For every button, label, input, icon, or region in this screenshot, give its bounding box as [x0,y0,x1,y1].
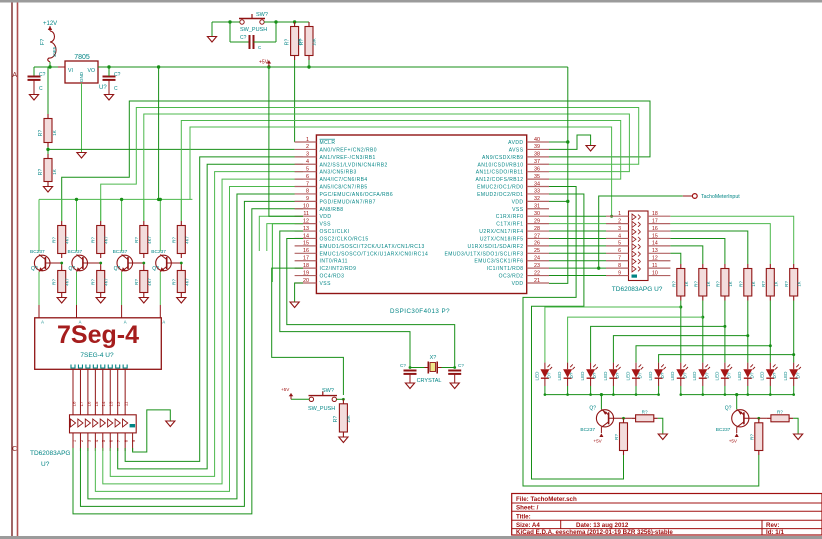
LED D12 [793,363,795,370]
svg-text:U1RX/SDI1/SDA/RF2: U1RX/SDI1/SDA/RF2 [468,244,524,250]
wire +5V to VDD pin11 [269,67,303,216]
svg-text:C?: C? [114,72,121,78]
svg-text:17: 17 [79,401,84,406]
svg-text:6: 6 [306,174,309,180]
wire SW1 node left down to cap [229,22,231,42]
wire bus AN11 long [144,114,630,221]
ground below R11 [139,298,148,304]
U5 pin 14 [295,237,317,239]
svg-text:LED: LED [557,371,562,381]
resistor R7 base upper [143,199,145,221]
svg-text:16: 16 [86,401,91,406]
svg-text:AN9/CSDX/RB9: AN9/CSDX/RB9 [482,155,524,161]
U5 pin 8 [295,193,317,195]
svg-text:TD62083APG: TD62083APG [30,450,70,457]
power flag +5V at Q6 [735,433,739,437]
svg-text:1K: 1K [684,281,689,286]
svg-text:PGC/EMUC/AN6/OCFA/RB6: PGC/EMUC/AN6/OCFA/RB6 [320,192,394,198]
svg-text:4K7: 4K7 [104,236,109,244]
svg-text:14: 14 [303,233,309,239]
svg-text:+5V: +5V [729,439,738,444]
wire MCU pin25 to U6 pin6 [549,252,606,254]
svg-text:SW?: SW? [256,12,268,18]
wire bus AN9 long [62,101,650,221]
wire base node Q5 [609,417,632,419]
svg-text:R?: R? [134,279,139,285]
U6 pin 8 [606,267,629,269]
ground for driver U4 [166,421,175,427]
svg-text:32: 32 [534,196,540,202]
svg-text:8: 8 [618,263,621,269]
wire MCU pin27 to U6 pin4 [549,237,606,239]
resistor R21 base drive [758,418,760,423]
svg-text:3: 3 [618,226,621,232]
svg-text:+5V: +5V [281,387,290,392]
svg-text:AN3/CN5/RB3: AN3/CN5/RB3 [320,170,357,176]
svg-text:+5V: +5V [593,439,602,444]
svg-text:30: 30 [534,211,540,217]
svg-text:4K7: 4K7 [65,236,70,244]
svg-text:Size: A4: Size: A4 [516,522,540,529]
U5 pin 18 [295,267,317,269]
U5 pin 20 [295,282,317,284]
svg-text:D?: D? [615,372,620,378]
wire LED D3 cathode [590,386,592,395]
U5 pin 31 [527,208,549,210]
svg-text:IC2/INT2/RD9: IC2/INT2/RD9 [320,266,357,272]
svg-text:R?: R? [749,434,754,440]
wire U6 pin16 to resistor [670,231,747,264]
resistor R4 to +5V rail [308,22,310,27]
svg-text:C: C [39,86,43,92]
resistor R20 base drive [623,418,625,423]
U5 pin 27 [527,237,549,239]
wire LED D5 cathode [635,386,637,395]
svg-text:4K7: 4K7 [147,278,152,286]
U5 pin 4 [295,163,317,165]
wire pin11 aux stub [259,216,303,251]
svg-text:3: 3 [306,152,309,158]
svg-text:VI: VI [68,68,73,74]
driver U4 bottom pin 9 [132,433,134,451]
svg-text:R?: R? [299,39,305,46]
svg-text:LED: LED [625,371,630,381]
svg-text:R?: R? [171,279,176,285]
svg-text:1K: 1K [52,169,57,175]
wire staircase segment 3 [724,301,726,363]
svg-text:4K7: 4K7 [104,278,109,286]
svg-text:AN11/CSDO/RB11: AN11/CSDO/RB11 [476,170,524,176]
transistor Q5 BC237 LED bank [600,393,603,396]
capacitor C2 [105,66,109,68]
LED D2 [567,363,569,370]
svg-text:1K: 1K [797,281,802,286]
svg-text:A: A [12,72,17,79]
U6 pin 13 [648,252,670,254]
svg-text:7SEG-4 U?: 7SEG-4 U? [80,352,114,359]
svg-text:EMUD2/OC2/RD1: EMUD2/OC2/RD1 [477,192,523,198]
svg-text:1K: 1K [728,281,733,286]
svg-text:D?: D? [772,372,777,378]
wire emitter Q2 to display [76,271,78,273]
svg-text:7: 7 [306,181,309,187]
7seg bottom pin 3 [86,365,90,369]
U6 pin 15 [648,237,670,239]
transistor Q6 BC237 LED bank [735,393,738,396]
wire to ground Q6 [793,418,798,433]
wire bus AN12 long [181,121,620,222]
wire segment net driver pin3 to MCU pin8 [88,194,303,499]
svg-text:AN0/VREF+/CN2/RB0: AN0/VREF+/CN2/RB0 [320,147,378,153]
svg-text:BC237: BC237 [580,427,595,433]
U6 pin 6 [606,252,629,254]
wire AVSS to ground [549,135,591,149]
svg-text:U2TX/CN18/RF5: U2TX/CN18/RF5 [480,236,524,242]
svg-text:13: 13 [652,248,658,254]
svg-text:Q?: Q? [725,406,732,412]
svg-text:9: 9 [306,196,309,202]
wire U6 pin17 to resistor [670,224,770,264]
svg-text:D?: D? [547,372,552,378]
wire emitter Q4 to display [159,271,161,273]
svg-text:LED: LED [670,371,675,381]
svg-text:C?: C? [400,363,406,368]
svg-text:C: C [12,446,17,453]
svg-text:BC237: BC237 [113,249,128,255]
+5V rail wire from VO [98,66,568,68]
ground at Q6 [794,434,803,440]
svg-text:28: 28 [534,226,540,232]
svg-text:25: 25 [534,248,540,254]
resistor R15 LED bank [702,264,704,269]
U6 pin 14 [648,245,670,247]
svg-text:R?: R? [134,237,139,243]
U5 pin 11 [295,215,317,217]
U6 pin 12 [648,260,670,262]
svg-text:LED: LED [783,371,788,381]
resistor R16 LED bank [724,264,726,269]
svg-text:U2RX/CN17/RF4: U2RX/CN17/RF4 [479,229,523,235]
wire emitter Q3 to display [121,271,123,273]
svg-text:10K: 10K [346,415,351,423]
svg-text:OSC2/CLKO/RC15: OSC2/CLKO/RC15 [320,236,369,242]
svg-text:13: 13 [303,226,309,232]
svg-text:18: 18 [303,263,309,269]
svg-text:TachoMeterInput: TachoMeterInput [701,194,740,200]
svg-text:R?: R? [715,281,720,287]
svg-text:AVDD: AVDD [508,140,523,146]
U5 pin 34 [527,186,549,188]
wire OC2 to LED bank transistor Q6 [532,194,624,479]
wire AVDD VDD chain [549,67,568,283]
7seg bottom pin 5 [101,365,105,369]
svg-text:18: 18 [652,211,658,217]
svg-text:6: 6 [618,248,621,254]
svg-text:LED: LED [648,371,653,381]
wire U6 pin18 to resistor [670,216,793,264]
resistor R5 base upper [61,199,63,221]
U5 pin 38 [527,156,549,158]
wire staircase segment 1 [680,301,682,363]
svg-text:37: 37 [534,159,540,165]
svg-text:Title:: Title: [516,514,531,521]
wire pin20 VSS to ground [295,283,303,302]
svg-text:IC1/INT1/RD8: IC1/INT1/RD8 [487,266,524,272]
connector P1 TachoMeterInput [599,196,683,268]
svg-text:A: A [124,320,127,325]
U5 pin 21 [527,282,549,284]
resistor R6 base upper [100,199,102,221]
svg-text:SW_PUSH: SW_PUSH [308,406,335,412]
wire LED rail left group [545,394,659,396]
U5 pin 25 [527,252,549,254]
svg-text:12: 12 [652,256,658,262]
resistor R10 base lower [100,263,102,266]
transistor Q4 BC237 [156,255,172,271]
7seg bottom pin 6 [108,365,112,369]
svg-text:11: 11 [652,263,657,269]
wire SW1 right node [264,21,309,23]
ground below U5 [290,302,299,308]
7seg bottom pin 2 [78,365,82,369]
svg-text:AN4/IC7/CN6/RB4: AN4/IC7/CN6/RB4 [320,177,368,183]
U5 pin 36 [527,171,549,173]
LED D7 [680,363,682,370]
wire LED D12 cathode [793,386,795,395]
svg-text:12: 12 [116,401,121,406]
svg-text:14: 14 [101,401,106,406]
wire transistor block rail [39,198,192,200]
svg-text:SW_PUSH: SW_PUSH [240,27,267,33]
svg-text:2: 2 [306,144,309,150]
wire SW1 left to ground [212,21,240,23]
svg-text:AN12/COFS/RB12: AN12/COFS/RB12 [476,177,524,183]
sheet frame left border [11,3,13,537]
ground for SW1 [207,37,216,43]
svg-text:MCLR: MCLR [320,140,336,146]
svg-text:R?: R? [38,169,44,176]
LED D9 [724,363,726,370]
U6 pin 1 [606,215,629,217]
U5 pin 13 [295,230,317,232]
ground for AVSS [586,146,595,152]
svg-text:LED: LED [737,371,742,381]
svg-text:SW?: SW? [322,388,334,394]
wire driver U4 ground route [133,410,171,452]
svg-text:1K: 1K [751,281,756,286]
svg-text:38: 38 [534,152,540,158]
wire OSC2 to crystal [287,238,455,368]
driver U4 bottom pin 2 [79,433,81,451]
svg-text:EMUC3/SCK1/RF6: EMUC3/SCK1/RF6 [474,259,523,265]
U5 pin 29 [527,223,549,225]
svg-text:EMUD3/U1TX/SDO1/SCL/RF3: EMUD3/U1TX/SDO1/SCL/RF3 [445,251,524,257]
svg-text:4: 4 [618,233,621,239]
svg-text:4K7: 4K7 [184,236,189,244]
svg-text:R?: R? [285,39,291,46]
LED D3 [590,363,592,370]
U6 pin 17 [648,223,670,225]
wire pin12 aux stub [272,224,303,282]
resistor R17 LED bank [747,264,749,269]
U5 pin 9 [295,200,317,202]
7seg bottom pin 4 [93,365,97,369]
svg-text:40: 40 [534,137,540,143]
svg-text:R?: R? [693,281,698,287]
svg-text:D?: D? [795,372,800,378]
driver U4 bottom pin 7 [117,433,119,451]
wire VSS pin12 down [272,224,303,260]
U5 pin 28 [527,230,549,232]
U5 pin 3 [295,156,317,158]
U5 pin 5 [295,171,317,173]
svg-text:D?: D? [704,372,709,378]
LED D6 [658,363,660,370]
capacitor C1 [33,67,35,76]
U5 pin 19 [295,275,317,277]
U5 pin 12 [295,223,317,225]
wire +5V drop to transistor rail [158,67,160,199]
U5 pin 10 [295,208,317,210]
U5 pin 1 [295,141,317,143]
svg-text:17: 17 [652,218,658,224]
svg-text:10E5: 10E5 [52,46,57,57]
svg-text:R?: R? [38,130,44,137]
node divider tap to AN0 [47,147,49,154]
svg-text:LED: LED [534,371,539,381]
wire LED D8 cathode [702,386,704,395]
svg-text:LED: LED [714,371,719,381]
resistor R19 LED bank [793,264,795,269]
capacitor C3 across switch [230,41,249,43]
driver U4 bottom pin 8 [124,433,126,451]
LED D10 [747,363,749,370]
svg-text:D?: D? [660,372,665,378]
svg-text:VSS: VSS [512,207,524,213]
wire MCU pin24 to U6 pin7 [549,260,606,262]
U6 pin 16 [648,230,670,232]
svg-text:4K7: 4K7 [65,278,70,286]
svg-text:EMUD1/SOSCI/T2CK/U1ATX/CN1/RC1: EMUD1/SOSCI/T2CK/U1ATX/CN1/RC13 [320,244,425,250]
ground for C1 [29,95,38,101]
LED D11 [769,363,771,370]
svg-text:A: A [162,320,165,325]
transistor Q1 BC237 [34,255,50,271]
resistor R14 LED bank [680,264,682,269]
wire R4 to +5V rail [308,60,310,67]
svg-text:R?: R? [91,279,96,285]
wire crystal left [410,367,425,369]
svg-text:AN5/IC8/CN7/RB5: AN5/IC8/CN7/RB5 [320,185,368,191]
svg-text:BC237: BC237 [30,249,45,255]
transistor Q3 BC237 [117,255,133,271]
wire U6 pin14 to resistor [670,246,702,264]
wire segment net driver pin2 to MCU pin9 [80,201,303,506]
wire SW2 right node [337,398,344,400]
svg-text:17: 17 [303,256,309,262]
svg-text:Q?: Q? [152,266,159,272]
svg-text:R?: R? [784,281,789,287]
svg-text:PGD/EMUD/AN7/RB7: PGD/EMUD/AN7/RB7 [320,199,376,205]
wire MCU pin29 to U6 pin2 [549,223,606,225]
svg-text:15: 15 [652,233,658,239]
svg-text:DSPIC30F4013 P?: DSPIC30F4013 P? [390,308,450,315]
wire LED D6 cathode [658,386,660,395]
wire input divider drop [47,67,49,114]
U5 pin 6 [295,178,317,180]
wire to ground Q5 [658,418,663,433]
svg-text:7Seg-4: 7Seg-4 [57,321,139,349]
wire segment net driver pin8 to MCU pin3 [125,157,303,462]
svg-text:TD62083APG U?: TD62083APG U? [612,286,663,293]
wire R3 down to MCLR pin1 [294,60,296,142]
svg-text:15: 15 [303,241,309,247]
wire LED D2 cathode [567,386,569,395]
svg-text:31: 31 [534,204,540,210]
svg-text:KiCad E.D.A. eeschema (2012-: KiCad E.D.A. eeschema (2012-01-19 BZR 32… [516,529,673,536]
svg-text:VDD: VDD [320,214,332,220]
U5 pin 17 [295,260,317,262]
U5 pin 37 [527,163,549,165]
svg-text:9: 9 [618,270,621,276]
U5 pin 7 [295,186,317,188]
svg-text:Q?: Q? [69,266,76,272]
wire bus AN10 long [101,108,639,222]
U6 pin 10 [648,275,670,277]
microcontroller U5 DSPIC30F4013 [316,135,526,294]
resistor R2 divider bottom [47,154,49,159]
wire bus net5 long [190,127,612,216]
LED D4 [612,363,614,370]
capacitor C4 [404,370,417,372]
LED D5 [635,363,637,370]
resistor R9 base lower [61,263,63,266]
ground for C2 [104,95,113,101]
svg-text:D?: D? [592,372,597,378]
wire fuse to VI rail [49,62,51,67]
svg-text:R?: R? [171,237,176,243]
svg-text:VSS: VSS [320,222,332,228]
svg-text:12: 12 [303,218,309,224]
driver U4 TD62083APG [70,415,137,433]
svg-text:11: 11 [124,401,129,406]
svg-text:OSC1/CLKI: OSC1/CLKI [320,229,350,235]
svg-text:AN2/SS1/LVDIN/CN4/RB2: AN2/SS1/LVDIN/CN4/RB2 [320,162,388,168]
wire base node Q6 [744,417,767,419]
wire staircase segment 6 [793,301,795,363]
svg-text:EMUC2/OC1/RD0: EMUC2/OC1/RD0 [477,185,523,191]
wire collector drop Q2 [76,199,78,251]
svg-text:34: 34 [534,181,540,187]
wire LED D10 cathode [747,386,749,395]
LED D8 [702,363,704,370]
svg-text:39: 39 [534,144,540,150]
svg-text:INT0/RA11: INT0/RA11 [320,259,348,265]
svg-text:10K: 10K [312,38,317,46]
svg-text:D?: D? [638,372,643,378]
U6 pin 7 [606,260,629,262]
svg-text:GND: GND [79,71,84,82]
resistor R12 base lower [180,263,182,266]
ground for U1 [77,153,86,159]
svg-text:Q?: Q? [31,266,38,272]
ground at Q5 [658,434,667,440]
svg-text:EMUC1/SOSCO/T1CK/U1ARX/CN0/RC1: EMUC1/SOSCO/T1CK/U1ARX/CN0/RC14 [320,251,429,257]
svg-text:1K: 1K [706,281,711,286]
svg-text:R?: R? [777,409,783,414]
U6 pin 5 [606,245,629,247]
U5 pin 24 [527,260,549,262]
